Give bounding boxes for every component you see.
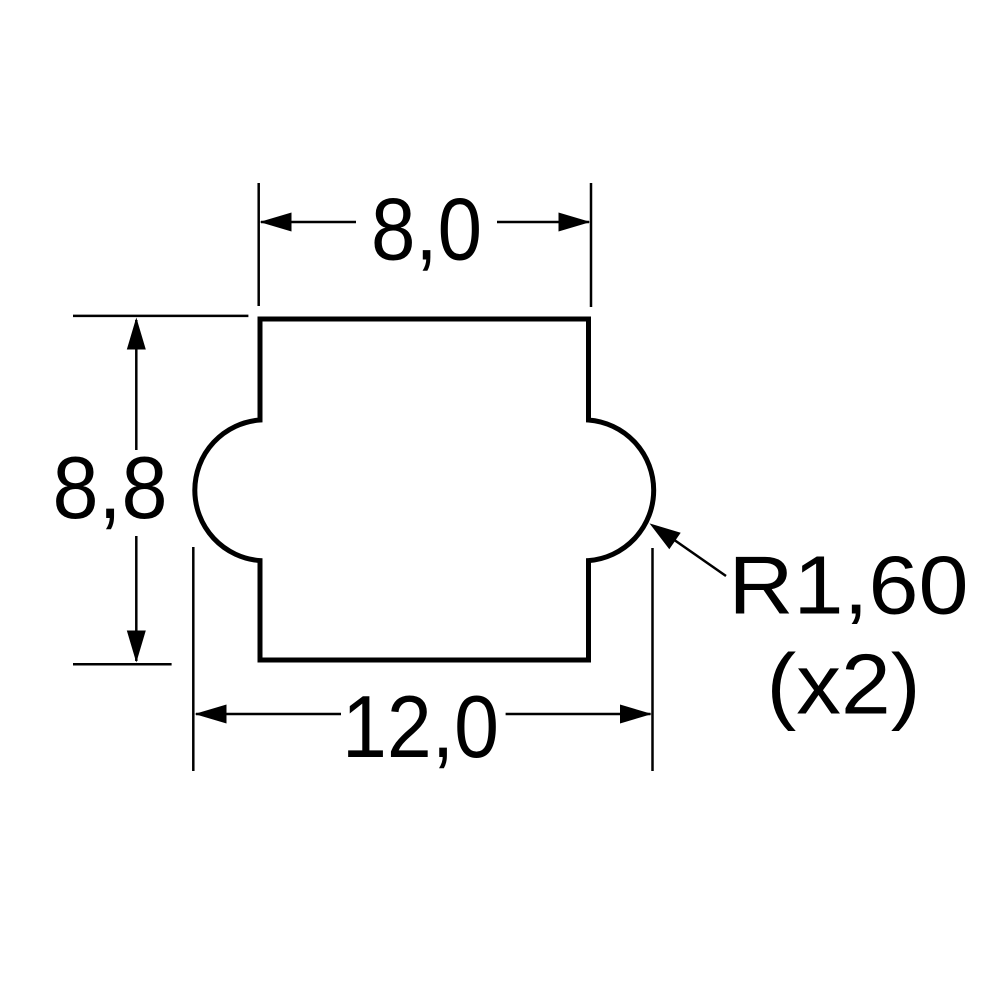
extension line left of 8,0: [257, 183, 260, 306]
svg-text:8,8: 8,8: [53, 438, 168, 537]
svg-text:R1,60: R1,60: [729, 539, 969, 632]
dimension line 8,0 right segment: [497, 221, 589, 224]
dimension line 8,8 lower segment: [135, 536, 138, 661]
svg-text:(x2): (x2): [767, 638, 921, 733]
extension line bottom of 8,8: [73, 663, 172, 666]
extension line right of 8,0: [590, 183, 593, 307]
dimension line 8,8 upper segment: [135, 320, 138, 450]
extension line top of 8,8: [73, 315, 248, 318]
arrowhead 8,0 right: [559, 213, 591, 232]
dimension line 12,0 right segment: [506, 713, 651, 716]
extension line right of 12,0: [651, 548, 654, 771]
dimension line 8,0 left segment: [261, 221, 356, 224]
arrowhead 8,8 down: [127, 631, 146, 663]
svg-text:12,0: 12,0: [342, 677, 499, 776]
arrowhead 12,0 right: [620, 705, 652, 724]
svg-text:8,0: 8,0: [371, 180, 482, 279]
extension line left of 12,0: [192, 547, 195, 771]
leader arrowhead R1,60: [650, 523, 681, 549]
arrowhead 8,8 up: [127, 318, 146, 350]
dimension line 12,0 left segment: [196, 713, 341, 716]
arrowhead 8,0 left: [260, 213, 292, 232]
leader line R1,60: [660, 530, 726, 576]
arrowhead 12,0 left: [195, 705, 227, 724]
cutout shape outline: [195, 319, 654, 660]
